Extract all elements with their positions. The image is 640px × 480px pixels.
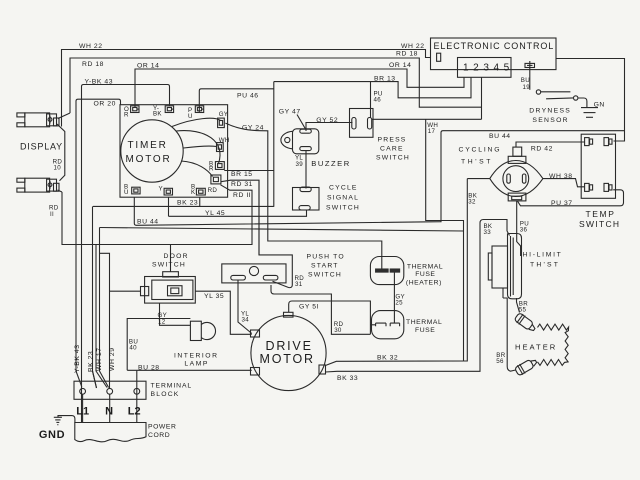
svg-text:N: N: [105, 406, 113, 418]
wire x92 BK slant into block: [93, 371, 97, 388]
wire YL35: [195, 291, 251, 334]
svg-text:BU 44: BU 44: [137, 218, 159, 225]
svg-text:YL 35: YL 35: [204, 293, 224, 300]
wire WH22 trunk: [62, 50, 431, 127]
svg-text:START: START: [311, 263, 339, 270]
power cord wires: [83, 394, 110, 422]
svg-text:SWITCH: SWITCH: [326, 205, 360, 212]
wire push-to-start feed: [258, 180, 260, 255]
svg-text:BU 28: BU 28: [138, 365, 160, 372]
svg-text:GY 5I: GY 5I: [299, 304, 319, 311]
svg-text:PUSH TO: PUSH TO: [307, 254, 345, 261]
wire RD18 display stub: [58, 113, 70, 119]
wire GY47 leader: [297, 115, 306, 130]
timer pin OR top1: [131, 106, 139, 113]
wire door switch top tab riser: [170, 245, 172, 272]
wire RD11 from display to timer: [62, 185, 252, 245]
temp switch pin top-left: [585, 138, 593, 146]
svg-text:TIMER: TIMER: [128, 140, 168, 151]
svg-text:32: 32: [468, 198, 476, 205]
svg-text:ELECTRONIC CONTROL: ELECTRONIC CONTROL: [434, 41, 555, 51]
wire timer Y pin stub: [168, 197, 170, 216]
dryness sensor switch contacts: [536, 90, 540, 94]
svg-text:K: K: [191, 189, 196, 196]
svg-text:CORD: CORD: [148, 432, 170, 439]
svg-text:WH 22: WH 22: [401, 43, 425, 50]
thermal fuse body: [372, 311, 404, 339]
wire buzzer to cycle signal switch: [305, 151, 307, 189]
wire BK32 trunk: [325, 179, 467, 366]
push to start switch: [222, 264, 286, 283]
ground GN symbol: [581, 108, 598, 118]
wire EC to dryness right: [556, 59, 625, 142]
svg-text:FUSE: FUSE: [415, 271, 435, 278]
svg-text:SWITCH: SWITCH: [308, 272, 342, 279]
svg-text:46: 46: [374, 97, 382, 104]
svg-text:TEMP: TEMP: [586, 209, 616, 219]
svg-text:L1: L1: [76, 406, 89, 418]
svg-text:55: 55: [519, 307, 527, 314]
wire RD42 cycling to temp switch: [516, 142, 585, 147]
wire L2 drop: [136, 371, 138, 423]
svg-text:10: 10: [54, 165, 62, 172]
wire BR15: [224, 170, 273, 172]
svg-text:FUSE: FUSE: [415, 327, 435, 334]
svg-text:CYCLE: CYCLE: [329, 185, 358, 192]
svg-text:BR 15: BR 15: [231, 171, 253, 178]
svg-text:MOTOR: MOTOR: [260, 352, 315, 366]
door switch: [141, 272, 196, 303]
svg-text:12: 12: [158, 318, 166, 325]
svg-text:36: 36: [520, 226, 528, 233]
svg-text:17: 17: [428, 128, 436, 135]
svg-text:RD 18: RD 18: [82, 61, 104, 68]
cycling thermostat: [490, 147, 543, 201]
svg-text:(HEATER): (HEATER): [406, 280, 442, 287]
wire BU40 lamp riser: [127, 319, 190, 371]
svg-text:RD 31: RD 31: [231, 181, 253, 188]
wire dryness sensor contact line: [541, 91, 571, 93]
interior lamp: [190, 321, 215, 340]
svg-text:WH 29: WH 29: [109, 347, 116, 371]
svg-text:OR 14: OR 14: [137, 62, 159, 69]
svg-text:OR 20: OR 20: [94, 100, 116, 107]
svg-text:SENSOR: SENSOR: [532, 117, 569, 124]
wire Y-BK43 trunk: [82, 85, 170, 423]
timer motor circle: [121, 120, 183, 182]
wire PU46 vertical to press care switch: [370, 82, 372, 118]
svg-text:DRIVE: DRIVE: [266, 339, 313, 353]
wire PU37: [517, 190, 623, 206]
wire dryness sensor arm: [546, 97, 573, 100]
timer pin RD right4: [211, 175, 221, 184]
svg-text:LAMP: LAMP: [184, 360, 209, 367]
svg-text:SWITCH: SWITCH: [152, 262, 186, 269]
svg-text:BK 32: BK 32: [377, 355, 398, 362]
svg-text:Y: Y: [159, 186, 163, 193]
wire WH17 vertical run: [426, 119, 464, 361]
svg-text:BR 13: BR 13: [374, 75, 396, 82]
wire OR20 to L1 slant: [76, 371, 82, 387]
timer pin GY right1: [218, 118, 225, 128]
thermal fuse heater body: [370, 257, 403, 285]
heater bottom crimp terminal: [514, 356, 539, 377]
wire BK33 trunk: [325, 220, 507, 373]
thermal fuse heater pins: [376, 269, 389, 272]
svg-text:Y-BK 43: Y-BK 43: [85, 79, 114, 86]
svg-text:RD II: RD II: [233, 192, 251, 199]
wire cycling thermostat left lead: [467, 178, 490, 180]
wire WH17 horizontal from press care: [372, 118, 482, 120]
drive motor: [251, 312, 327, 390]
svg-text:OR 14: OR 14: [389, 62, 411, 69]
svg-text:34: 34: [242, 317, 250, 324]
wire WH38 cycling to temp switch: [543, 179, 585, 187]
temp switch pin top-right: [604, 138, 612, 146]
svg-text:WH 17: WH 17: [96, 347, 103, 371]
svg-text:BK 23: BK 23: [88, 351, 95, 372]
temp switch pin bottom-left: [585, 183, 593, 191]
wire BR13 trunk: [274, 77, 471, 98]
wire x96 vertical to N: [96, 245, 107, 388]
svg-text:GY 24: GY 24: [242, 125, 264, 132]
wire BU19 vertical: [529, 61, 531, 90]
svg-text:RD 18: RD 18: [396, 51, 418, 58]
heater top crimp terminal: [513, 312, 537, 334]
display bracket outline: [57, 124, 65, 181]
svg-text:40: 40: [129, 345, 137, 352]
svg-text:BU 44: BU 44: [489, 133, 511, 140]
wire RD30 branch: [271, 285, 370, 334]
wire fuse2 left pin stub: [370, 324, 375, 326]
wire GY24 from timer GY pin: [225, 123, 381, 269]
svg-text:R: R: [209, 166, 214, 173]
timer pin BR right3: [215, 162, 224, 170]
wire trunk-B y228-231: [100, 228, 464, 232]
svg-text:GND: GND: [39, 429, 65, 441]
timer pin Y-BK top2: [165, 106, 173, 113]
wire GY12 door switch to lamp: [160, 303, 191, 325]
svg-text:39: 39: [296, 161, 304, 168]
timer pin WH right2: [217, 143, 224, 152]
electronic control box: [431, 38, 557, 70]
timer pin PU top3: [195, 106, 203, 113]
svg-text:INTERIOR: INTERIOR: [174, 352, 218, 359]
svg-text:12345: 12345: [463, 63, 514, 74]
press care switch: [350, 109, 374, 138]
electronic control connector 12345 box: [458, 58, 512, 78]
wire x99 vertical to N: [100, 228, 109, 388]
display connector top plug: [17, 113, 59, 127]
display connector bottom plug: [17, 178, 62, 192]
svg-text:SWITCH: SWITCH: [376, 155, 410, 162]
svg-text:WH 22: WH 22: [79, 43, 103, 50]
GND symbol: [54, 417, 62, 424]
svg-text:TERMINAL: TERMINAL: [151, 382, 193, 389]
wire PU46 from timer: [199, 89, 273, 112]
wire dryness sensor to ground: [578, 98, 587, 108]
svg-text:PRESS: PRESS: [378, 137, 407, 144]
wire GY52 buzzer to press care: [306, 123, 353, 132]
svg-text:R: R: [124, 112, 129, 119]
svg-text:THERMAL: THERMAL: [406, 319, 442, 326]
svg-text:BUZZER: BUZZER: [311, 159, 350, 168]
svg-text:CYCLING: CYCLING: [459, 147, 502, 154]
svg-text:GY 47: GY 47: [279, 108, 301, 115]
svg-text:GN: GN: [594, 102, 605, 109]
svg-text:33: 33: [484, 229, 492, 236]
svg-text:HI-LIMIT: HI-LIMIT: [523, 252, 563, 259]
svg-text:PU 46: PU 46: [237, 92, 259, 99]
svg-text:U: U: [188, 113, 193, 120]
wire YL45 trunk: [169, 210, 307, 216]
svg-text:PU 37: PU 37: [551, 200, 573, 207]
timer motor internal curves: [172, 118, 221, 126]
wire PU36 cycling to hi-limit: [517, 201, 521, 256]
wire GY51 motor top to fuse2: [289, 301, 371, 334]
wire trunk y207: [93, 205, 274, 207]
svg-text:TH'ST: TH'ST: [461, 159, 493, 166]
svg-text:BLOCK: BLOCK: [151, 391, 180, 398]
wire timer BK pin stub: [199, 197, 201, 206]
hi-limit thermostat body: [488, 231, 521, 299]
svg-text:MOTOR: MOTOR: [126, 154, 172, 165]
svg-text:RD 42: RD 42: [531, 145, 553, 152]
timer motor box: [120, 105, 228, 198]
wire OR20 trunk: [76, 99, 121, 371]
wire BR56 hi-limit to heater bottom: [507, 298, 515, 371]
electronic control pin: [437, 53, 441, 61]
svg-text:II: II: [50, 211, 54, 218]
temp switch box: [581, 134, 615, 198]
svg-text:BK 33: BK 33: [337, 375, 358, 382]
heater element zigzag: [537, 324, 568, 365]
wire ground GND lead: [58, 416, 75, 423]
node vertical bus x274: [273, 82, 275, 207]
temp switch pin bottom-right: [604, 183, 612, 191]
svg-text:BK 23: BK 23: [177, 200, 198, 207]
svg-text:56: 56: [496, 358, 504, 365]
wire RD31: [221, 180, 292, 287]
svg-text:GY: GY: [219, 111, 229, 118]
wire door switch feed: [110, 290, 141, 292]
timer pin BU bottom1: [132, 187, 140, 194]
buzzer: [281, 129, 319, 154]
svg-text:SIGNAL: SIGNAL: [327, 195, 359, 202]
wire GY25 fuse1 to fuse2: [393, 272, 395, 323]
electronic control bottom fuse symbol: [525, 63, 535, 67]
svg-text:RD: RD: [208, 187, 218, 194]
svg-text:HEATER: HEATER: [515, 342, 557, 351]
svg-text:Y-BK 43: Y-BK 43: [74, 344, 81, 373]
svg-text:30: 30: [334, 327, 342, 334]
svg-text:CARE: CARE: [380, 146, 404, 153]
svg-text:WH: WH: [219, 137, 230, 144]
wire inner-box pin3 vertical: [481, 77, 483, 119]
svg-text:BK: BK: [153, 111, 162, 118]
svg-text:25: 25: [395, 299, 403, 306]
svg-text:WH 38: WH 38: [549, 173, 573, 180]
svg-text:L2: L2: [128, 406, 141, 418]
wire OR14 trunk: [135, 69, 464, 108]
svg-text:POWER: POWER: [148, 423, 176, 430]
thermal fuse pins: [376, 323, 400, 326]
wire BU28 trunk to motor: [127, 369, 252, 371]
terminal block: [74, 381, 146, 399]
svg-text:TH'ST: TH'ST: [530, 262, 560, 269]
svg-text:YL 45: YL 45: [205, 210, 225, 217]
power cord box: [75, 423, 146, 442]
svg-text:DRYNESS: DRYNESS: [529, 108, 571, 115]
svg-text:GY 52: GY 52: [316, 117, 338, 124]
wire YL34: [238, 280, 252, 334]
wire x109 vertical door feed and N: [100, 253, 110, 388]
svg-text:SWITCH: SWITCH: [579, 219, 620, 229]
cycle signal switch: [293, 187, 320, 210]
svg-text:DISPLAY: DISPLAY: [20, 141, 63, 151]
svg-text:31: 31: [295, 281, 303, 288]
wire RD18 trunk: [70, 58, 482, 113]
timer pin BK bottom3: [196, 188, 205, 195]
wire trunk y207 vertical x93 to terminal block: [93, 206, 97, 388]
svg-text:19: 19: [523, 84, 531, 91]
wire BU44 trunk: [134, 131, 624, 226]
svg-text:DOOR: DOOR: [164, 253, 189, 260]
svg-text:THERMAL: THERMAL: [407, 264, 443, 271]
timer pin Y bottom2: [164, 188, 172, 195]
svg-text:U: U: [124, 189, 129, 196]
wire BR55 hi-limit to heater top: [517, 298, 520, 313]
